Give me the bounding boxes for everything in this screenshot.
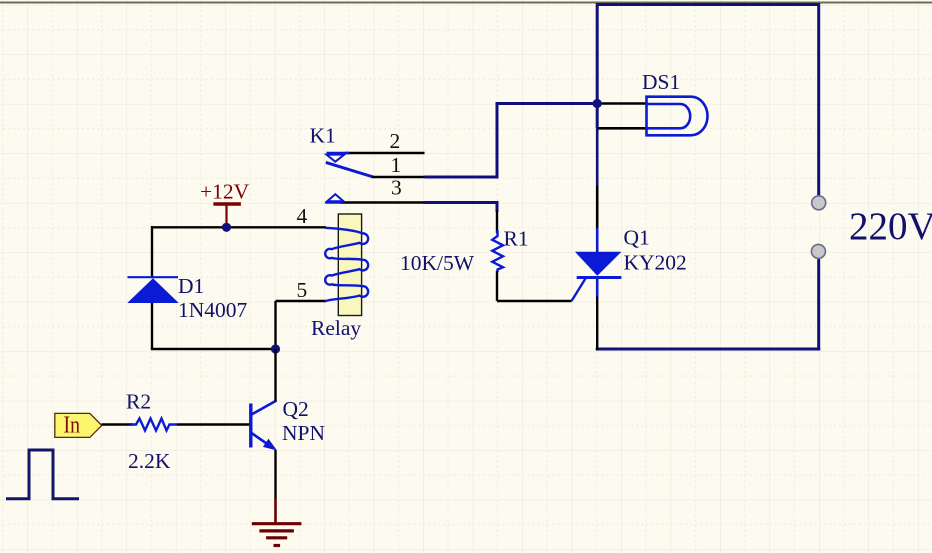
relay contacts K1 pin 1 arm xyxy=(326,162,374,177)
svg-text:R1: R1 xyxy=(504,227,529,251)
wire bottom rail xyxy=(596,348,821,351)
relay contacts K1 pin 2 xyxy=(345,152,425,154)
resistor R1 xyxy=(492,230,503,272)
wire top loop right vertical upper xyxy=(817,3,820,196)
relay coil: pin 5 wire xyxy=(276,300,327,302)
terminal circle lower xyxy=(811,244,825,258)
wire pin3 corner down to R1 xyxy=(496,203,499,213)
svg-text:4: 4 xyxy=(297,204,308,228)
svg-text:Relay: Relay xyxy=(311,316,361,340)
port In xyxy=(55,413,102,437)
wire In to R2 xyxy=(102,423,134,425)
lamp DS1 xyxy=(647,97,708,136)
wire Q2 emitter xyxy=(274,450,276,499)
svg-text:2.2K: 2.2K xyxy=(128,449,171,473)
wire junction to K1 arm: vertical xyxy=(496,102,499,177)
svg-text:220V: 220V xyxy=(849,205,932,248)
relay coil helix xyxy=(325,228,368,301)
wire top loop horizontal xyxy=(597,3,819,6)
svg-text:+12V: +12V xyxy=(200,180,250,204)
junction lamp node xyxy=(593,99,602,108)
diode D1 xyxy=(128,276,179,278)
transistor Q2 xyxy=(249,404,252,448)
svg-text:R2: R2 xyxy=(126,390,151,414)
wire right vertical lower xyxy=(817,259,820,351)
svg-text:1: 1 xyxy=(391,153,402,177)
power +12V symbol xyxy=(213,202,241,205)
sheet top border xyxy=(0,2,932,4)
svg-text:10K/5W: 10K/5W xyxy=(400,251,475,275)
svg-text:3: 3 xyxy=(391,176,402,200)
svg-text:2: 2 xyxy=(390,129,401,153)
svg-text:KY202: KY202 xyxy=(624,251,687,275)
wire Q1 cathode down xyxy=(596,297,598,351)
wire top loop left vertical xyxy=(596,3,599,104)
svg-text:1N4007: 1N4007 xyxy=(178,298,248,322)
terminal circle upper xyxy=(812,196,826,210)
svg-text:Q2: Q2 xyxy=(283,397,309,421)
thyristor Q1 xyxy=(596,228,599,253)
svg-text:In: In xyxy=(64,412,81,439)
wire lamp top lead xyxy=(597,102,646,105)
wire lamp bottom lead xyxy=(597,127,646,130)
svg-text:NPN: NPN xyxy=(282,421,325,445)
wire D1 top vertical xyxy=(151,226,153,278)
wire R1 bottom xyxy=(496,271,498,301)
junction +12V node xyxy=(222,223,231,232)
svg-text:5: 5 xyxy=(297,278,308,302)
relay coil: pin 4 wire xyxy=(152,226,326,228)
ground xyxy=(274,499,277,524)
svg-text:DS1: DS1 xyxy=(642,70,680,94)
wire lamp corner down to Q1 anode xyxy=(596,128,599,186)
wire R2 to Q2 base xyxy=(177,423,250,425)
wire pin5 vertical xyxy=(274,301,276,349)
wire D1 bottom vertical xyxy=(151,302,153,349)
junction collector node xyxy=(271,344,280,353)
svg-text:Q1: Q1 xyxy=(624,226,650,250)
wire bottom horizontal to pin5 vertical xyxy=(151,348,276,350)
svg-text:K1: K1 xyxy=(310,124,336,148)
resistor R2 xyxy=(130,419,178,431)
wire junction to K1 arm: horizontal xyxy=(497,102,597,105)
wire K1 pin1 extension xyxy=(425,176,499,179)
wire Q2 collector xyxy=(274,349,276,401)
relay contacts K1 pin 3 xyxy=(340,201,425,203)
wire junction down to lamp corner xyxy=(596,104,599,129)
relay coil body xyxy=(338,214,361,316)
wire K1 pin3 extension xyxy=(425,201,499,204)
svg-text:D1: D1 xyxy=(178,274,204,298)
pulse waveform xyxy=(6,450,79,499)
